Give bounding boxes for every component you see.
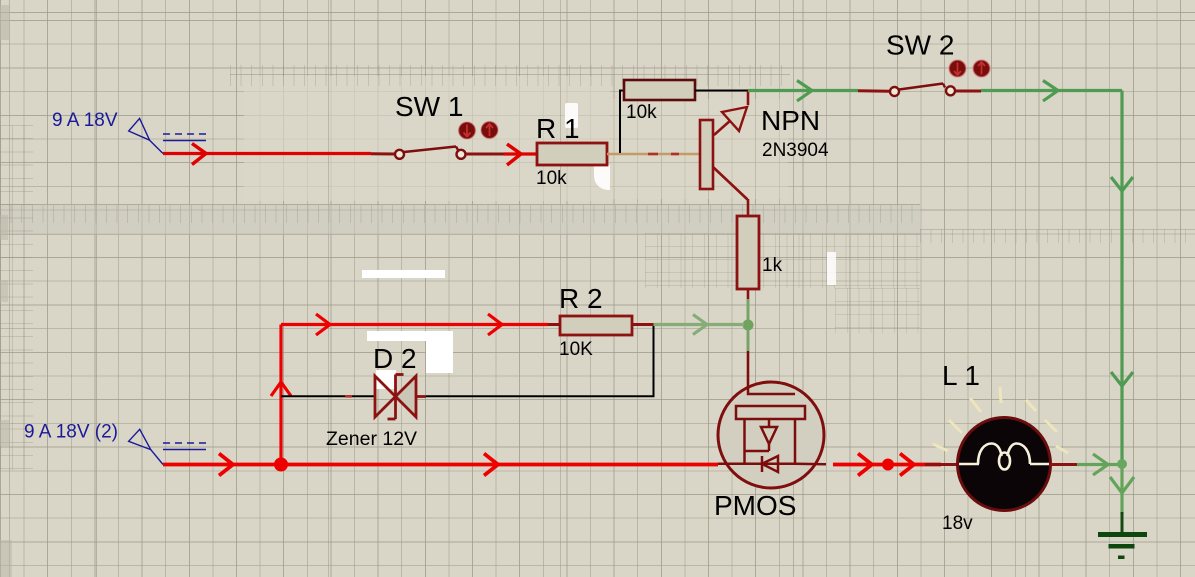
svg-text:2N3904: 2N3904 [762,140,829,161]
svg-text:R 2: R 2 [559,283,603,314]
svg-text:9 A 18V (2): 9 A 18V (2) [24,422,118,443]
svg-text:SW 1: SW 1 [395,91,463,122]
svg-text:10K: 10K [559,339,593,360]
svg-text:Zener 12V: Zener 12V [326,428,417,450]
svg-text:R 1: R 1 [536,113,580,144]
svg-text:PMOS: PMOS [714,490,796,521]
svg-text:SW 2: SW 2 [886,30,954,61]
svg-text:10k: 10k [536,168,567,189]
svg-text:10k: 10k [626,102,657,123]
svg-text:L 1: L 1 [942,360,980,391]
svg-text:9 A 18V: 9 A 18V [52,110,118,131]
svg-text:D 2: D 2 [373,343,417,374]
svg-text:1k: 1k [762,255,783,276]
svg-text:NPN: NPN [761,105,820,136]
svg-text:18v: 18v [942,513,973,534]
